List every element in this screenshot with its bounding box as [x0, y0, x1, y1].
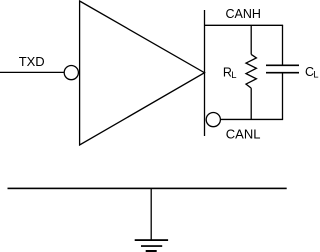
wire: output bus vertical — [204, 10, 206, 136]
svg-text:TXD: TXD — [19, 54, 45, 69]
ground — [135, 239, 168, 252]
svg-text:L: L — [313, 69, 318, 80]
pin circle: CANL bubble — [206, 113, 220, 127]
wire CANL (bottom) — [221, 118, 283, 120]
pin circle: driver input bubble — [64, 66, 78, 80]
wire: ground bus — [8, 188, 287, 190]
label CL — [305, 65, 319, 81]
label RL — [223, 65, 237, 81]
wire CANH (top) — [205, 24, 284, 26]
svg-text:L: L — [231, 70, 236, 81]
driver triangle U1 — [80, 1, 205, 145]
svg-text:CANH: CANH — [226, 7, 261, 21]
resistor RL — [246, 25, 256, 119]
svg-text:CANL: CANL — [226, 127, 261, 142]
wire: ground stem — [150, 188, 152, 240]
wire: TXD input lead — [0, 71, 64, 73]
capacitor CL — [266, 25, 299, 119]
